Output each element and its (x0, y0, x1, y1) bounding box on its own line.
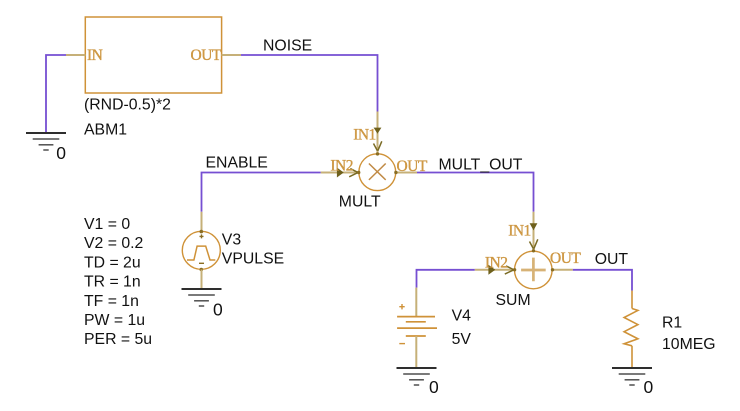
net label MULT_OUT (439, 157, 523, 174)
svg-text:OUT: OUT (550, 250, 581, 267)
svg-text:5V: 5V (452, 331, 472, 348)
svg-text:MULT: MULT (339, 193, 381, 210)
pin name IN2 (SUM) (485, 254, 508, 271)
svg-text:TR = 1n: TR = 1n (84, 274, 141, 291)
net label NOISE (263, 38, 312, 55)
wire net ENABLE (202, 173, 321, 212)
svg-text:SUM: SUM (496, 292, 531, 309)
voltage source V3 body (182, 231, 220, 269)
svg-text:PER = 5u: PER = 5u (84, 331, 152, 348)
pin name IN2 (MULT) (330, 157, 353, 174)
ground 0 under V4 (397, 368, 437, 385)
ground 0 under R1 (612, 368, 652, 385)
pin name IN1 (SUM) (508, 222, 531, 239)
junction dot MULT IN2 (357, 171, 360, 174)
svg-text:0: 0 (56, 143, 66, 163)
multiplier MULT body (359, 154, 396, 191)
minus mark V4 (399, 343, 405, 345)
svg-text:NOISE: NOISE (263, 38, 312, 55)
net label 0 (V3 ground) (213, 300, 223, 320)
wire net OUT (573, 270, 632, 291)
svg-text:TF = 1n: TF = 1n (84, 293, 139, 310)
multiplier MULT pin IN2 (321, 168, 359, 178)
net label ENABLE (206, 155, 268, 172)
wire ABM1 IN to ground (46, 55, 66, 133)
summer SUM pin IN2 (475, 265, 515, 275)
multiplier MULT pin OUT (396, 172, 417, 174)
minus mark V3 (199, 262, 204, 264)
parameter list V3 (84, 216, 152, 348)
svg-text:(RND-0.5)*2: (RND-0.5)*2 (84, 96, 171, 113)
svg-text:IN2: IN2 (485, 254, 508, 271)
svg-text:OUT: OUT (595, 251, 629, 268)
summer SUM pin OUT (553, 269, 573, 271)
svg-text:IN1: IN1 (353, 127, 376, 144)
voltage source V4 pin top (415, 288, 417, 317)
svg-text:PW = 1u: PW = 1u (84, 312, 145, 329)
voltage source V3 pin top (201, 212, 203, 232)
value label 10MEG (662, 336, 716, 353)
svg-text:10MEG: 10MEG (662, 336, 716, 353)
svg-text:IN1: IN1 (508, 222, 531, 239)
value label VPULSE (222, 250, 284, 267)
svg-text:ABM1: ABM1 (84, 121, 127, 138)
voltage source V4 plates (397, 317, 437, 336)
svg-text:V2 = 0.2: V2 = 0.2 (84, 235, 143, 252)
reference label SUM (496, 292, 531, 309)
svg-text:V3: V3 (222, 231, 242, 248)
svg-text:0: 0 (644, 377, 654, 397)
svg-text:ENABLE: ENABLE (206, 155, 268, 172)
svg-text:V4: V4 (452, 308, 472, 325)
svg-text:IN2: IN2 (330, 157, 353, 174)
svg-text:VPULSE: VPULSE (222, 250, 284, 267)
svg-text:R1: R1 (662, 315, 682, 332)
wire net NOISE (241, 55, 378, 112)
multiplier MULT pin IN1 (374, 112, 382, 154)
ABM source ABM1 body (85, 17, 221, 93)
reference label MULT (339, 193, 381, 210)
net label 0 (ABM1 ground) (56, 143, 66, 163)
reference label ABM1 (84, 121, 127, 138)
summer SUM pin IN1 (530, 212, 538, 251)
pin stub ABM1 IN (66, 54, 86, 56)
pin name OUT (SUM) (550, 250, 581, 267)
net label 0 (R1 ground) (644, 377, 654, 397)
value label 5V (452, 331, 472, 348)
junction dot SUM OUT (551, 268, 554, 271)
reference label R1 (662, 315, 682, 332)
svg-text:0: 0 (429, 377, 439, 397)
value label (RND-0.5)*2 (84, 96, 171, 113)
voltage source V3 pin bottom (201, 270, 203, 290)
ground 0 under ABM1 (26, 133, 66, 150)
wire V4 to SUM IN2 (417, 270, 475, 288)
junction dot V3 top (200, 230, 204, 234)
svg-text:OUT: OUT (191, 47, 222, 64)
voltage source V4 pin bottom (415, 336, 417, 368)
reference label V4 (452, 308, 472, 325)
junction dot SUM IN1 (532, 249, 535, 252)
pin name IN1 (MULT) (353, 127, 376, 144)
pin name OUT (MULT) (397, 158, 428, 175)
pin name OUT (ABM1) (191, 47, 222, 64)
svg-text:TD = 2u: TD = 2u (84, 254, 141, 271)
junction dot SUM IN2 (513, 268, 516, 271)
plus mark V3 (200, 234, 204, 238)
pin stub ABM1 OUT (222, 54, 242, 56)
svg-text:MULT_OUT: MULT_OUT (439, 157, 523, 174)
resistor R1 (624, 291, 638, 368)
net label OUT (595, 251, 629, 268)
pin name IN (ABM1) (87, 47, 103, 64)
junction dot MULT IN1 (376, 152, 379, 155)
svg-text:V1 = 0: V1 = 0 (84, 216, 130, 233)
junction dot V3 bottom (200, 268, 204, 272)
svg-text:IN: IN (87, 47, 103, 64)
summer SUM body (515, 251, 553, 289)
ground 0 under V3 (182, 289, 222, 306)
reference label V3 (222, 231, 242, 248)
svg-text:0: 0 (213, 300, 223, 320)
wire net MULT_OUT (417, 173, 534, 212)
plus mark V4 (399, 304, 404, 309)
junction dot MULT OUT (394, 171, 397, 174)
net label 0 (V4 ground) (429, 377, 439, 397)
